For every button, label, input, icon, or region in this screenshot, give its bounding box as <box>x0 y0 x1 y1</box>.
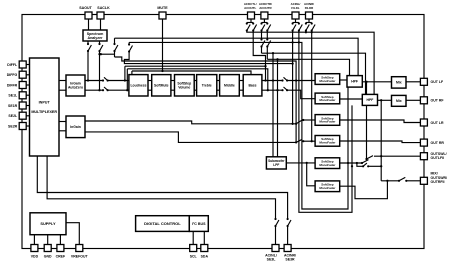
wire front L to MonoFader1 <box>287 80 315 82</box>
wire MUTE drop <box>162 19 164 71</box>
junction on net NB <box>291 41 293 43</box>
block SoftStep MonoFader 2 <box>315 93 340 104</box>
wire net V129 upper <box>128 42 130 44</box>
pin OUTSWL/OUTLFII <box>420 153 427 160</box>
svg-text:FILDL: FILDL <box>291 6 299 10</box>
switch net V114 <box>113 43 118 52</box>
junction HPF1 tap <box>365 81 367 83</box>
svg-text:OUT LF: OUT LF <box>431 80 444 84</box>
svg-text:SAOUT: SAOUT <box>79 6 92 10</box>
pin SACLK <box>97 12 104 19</box>
wire SAOUT to spectrum analyzer <box>88 19 90 30</box>
junction on MonoFader4 line <box>311 140 313 142</box>
wire to MIX OUTSWR pin <box>406 180 420 182</box>
wire stub DIFFR to input multiplexer <box>26 84 29 86</box>
wire MonoFader6 out loop <box>340 181 388 199</box>
svg-text:SE3L: SE3L <box>267 258 277 262</box>
wire stub DIFFL to input multiplexer <box>26 64 29 66</box>
wire net NB rail to HPF1 bottom <box>129 42 348 209</box>
switch AutoZero R <box>102 87 109 91</box>
svg-text:OUT RR: OUT RR <box>431 141 445 145</box>
wire Loudness-SoftMute R <box>148 89 152 91</box>
block input multiplexer <box>30 58 60 156</box>
switch net V129 <box>128 43 133 52</box>
switch MonoFader3 input <box>296 119 304 124</box>
pin ACINL/SE3L <box>272 245 279 252</box>
svg-text:OUT RF: OUT RF <box>431 99 445 103</box>
wire ACINL stem <box>295 19 297 23</box>
svg-text:SE1R: SE1R <box>8 104 18 108</box>
junction on InGain L line <box>291 123 293 125</box>
pin ACINR/FILDR <box>306 12 313 19</box>
pin VREFOUT <box>76 245 83 252</box>
svg-text:Mix: Mix <box>396 99 402 103</box>
switch ACDCTR right <box>266 22 271 31</box>
wire ACDCTL left upper <box>246 23 248 24</box>
junction spectrum tap R <box>98 89 100 91</box>
block SoftStep MonoFader 5 <box>315 158 340 169</box>
junction net H54 <box>98 53 100 55</box>
wire front R to MonoFader2 <box>287 90 315 99</box>
svg-text:DIFFL: DIFFL <box>7 63 18 67</box>
junction MonoFader6 loop on OUTSWR line <box>386 180 388 182</box>
junction MonoFader6 branch <box>306 162 308 164</box>
svg-text:SCL: SCL <box>190 255 198 259</box>
wire InGain out 2 <box>85 132 296 143</box>
junction on front L <box>264 79 266 81</box>
wire ACINL right upper <box>298 23 300 24</box>
pin MIX/OUTSWR/OUTRFII <box>420 177 427 184</box>
wire net H54 <box>101 53 115 55</box>
switch ACINR right <box>311 22 316 31</box>
switch spectrum tap R <box>98 43 103 52</box>
switch MonoFader5 out <box>361 160 369 164</box>
switch ACINR left <box>305 22 310 31</box>
switch spectrum tap L <box>87 43 92 52</box>
wire ACINR split <box>306 22 312 24</box>
svg-text:SE2R: SE2R <box>8 124 18 128</box>
svg-text:SE2L: SE2L <box>8 114 18 118</box>
pin OUT RF <box>420 97 427 104</box>
switch ACDCTL left <box>246 22 251 31</box>
block Loudness <box>129 75 148 96</box>
wire ACINR stem <box>308 19 310 23</box>
svg-text:OUTRFII: OUTRFII <box>431 180 445 184</box>
junction L4 on signal R <box>126 89 128 91</box>
wire bus L4 <box>127 69 267 90</box>
junction L4 on rear R <box>267 89 269 91</box>
svg-text:AutoZero: AutoZero <box>68 86 83 90</box>
wire stub SE2L to input multiplexer <box>26 115 29 117</box>
wire ACDCTR right to net ND <box>266 47 268 60</box>
block Bass <box>243 75 262 96</box>
wire Middle-Bass R <box>239 89 243 91</box>
junction L3 end <box>264 65 266 67</box>
junction MonoFader4 switch <box>295 141 297 143</box>
svg-text:INPUT: INPUT <box>39 101 51 105</box>
switch subwoofer L source <box>367 156 374 159</box>
switch OUTSWR <box>398 177 408 182</box>
wire mux to ACINR-SE3R net <box>37 156 287 219</box>
wire AutoZero out L <box>85 80 103 82</box>
junction on front L sub tap <box>272 79 274 81</box>
wire I2C to SCL <box>192 231 194 244</box>
wire mux to InGain in2 <box>59 130 66 132</box>
wire bus L5 left drop to Loudness <box>131 71 133 75</box>
wire bus L2 <box>124 52 292 64</box>
wire net NE to HPF1 top <box>115 38 359 75</box>
junction sub tap L on NC <box>272 52 274 54</box>
svg-text:SE3R: SE3R <box>285 258 295 262</box>
wire SE3L pin riser <box>275 226 277 245</box>
svg-text:Volume: Volume <box>178 86 190 90</box>
junction MonoFader3 switch <box>295 123 297 125</box>
pin SCL <box>190 245 197 252</box>
pin OUT LF <box>420 78 427 85</box>
block Treble <box>197 75 217 96</box>
wire ACDCTL right drop via H55 <box>253 31 265 81</box>
wire Volume-Treble R <box>194 89 196 91</box>
wire net V114 upper <box>114 38 116 44</box>
pin DIFFR <box>19 82 26 89</box>
junction rail on cluster link <box>351 165 353 167</box>
wire spectrum tap R upper <box>99 41 101 44</box>
wire to OUTSWR switch <box>381 180 399 182</box>
wire bus L4 left drop <box>126 69 128 90</box>
wire I2C to SDA <box>203 231 205 244</box>
switch MonoFader4 input <box>296 139 304 142</box>
wire Subwoofer LPF to MonoFader5 <box>286 162 315 164</box>
wire AutoZero R to Loudness <box>108 89 129 91</box>
wire MonoFader2 to HPF2 <box>340 98 363 100</box>
wire mux to InGain in1 <box>59 121 66 123</box>
pin DIFFL <box>19 61 26 68</box>
wire ACINR left drop <box>305 31 307 33</box>
svg-text:MonoFader: MonoFader <box>319 79 336 83</box>
wire AutoZero L to Loudness <box>108 80 129 82</box>
wire net NA to HPF2 top <box>247 31 374 95</box>
label ACINL/SE3L <box>265 254 277 262</box>
wire ACDCTL right upper <box>252 23 254 24</box>
wire spectrum tap L lower <box>87 51 89 81</box>
wire HPF2 to Mix2 <box>378 99 392 101</box>
wire ACDCTR left upper <box>261 23 263 24</box>
wire supply to VDD <box>33 235 35 245</box>
junction L1 on front L <box>295 79 297 81</box>
switch ACINL right <box>298 22 303 31</box>
wire HPF2 tap drop <box>380 100 382 181</box>
svg-text:OUT LR: OUT LR <box>431 121 444 125</box>
wire bus L5 mute net <box>132 71 251 75</box>
wire ACINL left long drop <box>292 31 294 124</box>
switch ACDCTR right second <box>266 38 271 47</box>
block supply <box>30 213 66 235</box>
wire Treble-Middle L <box>217 80 220 82</box>
wire AutoZero out R <box>85 89 103 91</box>
block SoftMute <box>152 75 171 96</box>
pin ACINL/FILDL <box>292 12 299 19</box>
switch front L <box>281 77 288 81</box>
wire MonoFader5 out <box>340 162 362 164</box>
wire InGain out 1 <box>85 121 296 124</box>
svg-text:ACOUTR: ACOUTR <box>259 6 272 10</box>
wire ACDCTR right upper <box>266 23 268 24</box>
block SoftStep MonoFader 1 <box>315 74 340 85</box>
label ACINR/FILDR <box>304 2 314 10</box>
junction spectrum tap L <box>87 79 89 81</box>
wire MonoFader1 to HPF1 <box>340 79 347 81</box>
block subwoofer LPF <box>266 157 286 169</box>
wire sub tap L drop to LPF <box>272 53 274 157</box>
svg-text:MonoFader: MonoFader <box>319 186 336 190</box>
switch ACDCTR left <box>260 22 265 31</box>
wire to MonoFader6 <box>307 163 315 186</box>
junction NB on ACINL right <box>298 41 300 43</box>
svg-text:Loudness: Loudness <box>130 84 146 88</box>
wire ACINR right upper <box>311 23 313 24</box>
block HPF2 <box>362 94 377 105</box>
wire to OUTSWL pin <box>374 155 420 157</box>
wire MonoFader4 to OUTRR <box>340 141 421 143</box>
svg-text:MUTE: MUTE <box>157 6 168 10</box>
pin VDD <box>31 245 38 252</box>
switch ACINL left <box>292 22 297 31</box>
wire ACINL right long drop to HPF2 bottom rail <box>299 31 352 213</box>
pin SAOUT <box>85 12 92 19</box>
wire Bass out L <box>262 80 283 82</box>
block HPF1 <box>347 76 362 88</box>
block SoftStep MonoFader 4 <box>315 136 340 147</box>
svg-text:ACOUTL: ACOUTL <box>244 6 256 10</box>
svg-text:Bass: Bass <box>248 84 256 88</box>
junction L3 on signal L <box>124 79 126 81</box>
wire ACDCTR stem <box>263 19 265 23</box>
svg-text:OUTLFII: OUTLFII <box>431 156 445 160</box>
block InGain <box>66 116 85 138</box>
pin ACDCTL/ACOUTL <box>248 12 255 19</box>
svg-text:SDA: SDA <box>201 255 209 259</box>
svg-text:Treble: Treble <box>202 84 212 88</box>
wire ACDCTL stem <box>250 19 252 23</box>
pin MUTE <box>159 12 166 19</box>
wire spectrum tap R lower <box>99 51 101 90</box>
wire mux to InGain-AutoZero L <box>59 80 66 82</box>
wire net ND to HPF1 top <box>267 59 349 75</box>
wire SE3R pin riser <box>287 226 289 245</box>
svg-text:Mix: Mix <box>396 81 402 85</box>
svg-text:HPF: HPF <box>367 98 374 102</box>
switch AutoZero L <box>102 77 109 81</box>
junction cluster C <box>365 158 367 160</box>
junction NA on ACINR right <box>311 31 313 33</box>
pin DIFFG <box>19 71 26 78</box>
junction on rear R sub tap <box>276 89 278 91</box>
wire mux to ACINL-SE3L net <box>47 156 275 219</box>
wire Bass out R <box>262 89 283 91</box>
wire stub SE1L to input multiplexer <box>26 94 29 96</box>
svg-text:VREFOUT: VREFOUT <box>71 255 89 259</box>
switch ACDCTR left second <box>260 38 265 47</box>
wire net NC to HPF2 top <box>262 53 366 94</box>
wire mux to InGain-AutoZero R <box>59 89 66 91</box>
block digital control <box>136 216 190 232</box>
pin SE2L <box>19 112 26 119</box>
wire ACINR right drop <box>311 31 313 142</box>
wire stub SE2R to input multiplexer <box>26 125 29 127</box>
pin OUT RR <box>420 139 427 146</box>
chip boundary <box>22 15 424 249</box>
wire ACDCTR left to net NC <box>261 47 263 54</box>
wire ACDCTR split <box>262 22 268 24</box>
label ACDCTL/ACOUTL <box>244 2 257 10</box>
svg-text:MonoFader: MonoFader <box>319 163 336 167</box>
junction sub select <box>356 162 358 164</box>
wire to MonoFader4 <box>303 140 315 142</box>
svg-text:MonoFader: MonoFader <box>319 141 336 145</box>
svg-text:Analyzer: Analyzer <box>88 36 104 40</box>
svg-text:FILDR: FILDR <box>305 6 314 10</box>
switch SE3L <box>274 218 279 227</box>
svg-text:HPF: HPF <box>351 80 358 84</box>
wire bus L1 drop to fader switches <box>115 57 297 142</box>
wire bus L3 <box>125 65 266 67</box>
junction sub tap R on ND <box>276 58 278 60</box>
switch ACDCTL right <box>252 22 257 31</box>
svg-text:SACLK: SACLK <box>97 6 110 10</box>
wire ACINR left upper <box>305 23 307 24</box>
wire ACINL left upper <box>292 23 294 24</box>
switch cluster lower <box>362 163 369 167</box>
junction on net NA <box>305 31 307 33</box>
block I2C bus <box>189 216 208 232</box>
block Mix1 <box>392 77 407 88</box>
wire Volume-Treble L <box>194 80 196 82</box>
wire to MonoFader3 <box>303 119 315 121</box>
svg-text:I²C BUS: I²C BUS <box>192 222 206 226</box>
label ACDCTR/ACOUTR <box>259 2 273 10</box>
block InGain AutoZero <box>66 75 85 96</box>
svg-text:GND: GND <box>44 255 52 259</box>
wire MonoFader3 to OUTLR <box>340 120 421 123</box>
wire Loudness-SoftMute L <box>148 80 152 82</box>
junction lower link on tap <box>380 165 382 167</box>
junction L2 end <box>291 62 293 64</box>
wire Treble-Middle R <box>217 89 220 91</box>
label MIX/OUTSWR/OUTRFII <box>431 172 448 184</box>
svg-text:SUPPLY: SUPPLY <box>40 221 56 226</box>
wire supply to GND <box>47 235 49 245</box>
svg-text:VDD: VDD <box>31 255 39 259</box>
wire Mix2 to OUTRF <box>406 99 420 101</box>
pin SE2R <box>19 123 26 130</box>
block SoftStep Volume <box>175 75 195 96</box>
pin GND <box>44 245 51 252</box>
wire HPF1 to Mix1 <box>362 81 391 83</box>
junction on OUTSWL line <box>380 155 382 157</box>
junction H54 on SACLK tap <box>100 53 102 55</box>
switch SE3R <box>287 218 292 227</box>
block SoftStep MonoFader 3 <box>315 115 340 126</box>
svg-text:CREF: CREF <box>56 255 66 259</box>
wire ACDCTL split <box>247 22 253 24</box>
svg-text:MULTIPLEXER: MULTIPLEXER <box>31 110 57 114</box>
svg-text:DIGITAL CONTROL: DIGITAL CONTROL <box>144 221 181 226</box>
svg-text:LPF: LPF <box>273 163 279 167</box>
pin SE1L <box>19 92 26 99</box>
label ACINR/SE3R <box>284 254 296 262</box>
wire ACDCTR left mid <box>261 31 263 40</box>
wire stub DIFFG to input multiplexer <box>26 74 29 76</box>
svg-text:SE1L: SE1L <box>8 94 18 98</box>
block Middle <box>220 75 240 96</box>
wire bus L3 left drop <box>124 66 126 80</box>
pin SDA <box>201 245 208 252</box>
wire ACDCTR right mid <box>266 31 268 40</box>
svg-text:Middle: Middle <box>224 84 235 88</box>
wire ACINL split <box>293 22 299 24</box>
pin CREF <box>57 245 64 252</box>
junction rail on MonoFader5 out <box>347 162 349 164</box>
wire supply to VREFOUT <box>66 223 79 245</box>
wire stub SE1R to input multiplexer <box>26 105 29 107</box>
svg-text:DIFFG: DIFFG <box>7 73 18 77</box>
switch front R <box>281 87 288 91</box>
wire supply to CREF <box>59 235 61 245</box>
wire Middle-Bass L <box>239 80 243 82</box>
wire SoftMute-Volume R <box>171 89 175 91</box>
block SoftStep MonoFader 6 <box>315 181 340 192</box>
svg-text:InGain: InGain <box>70 125 81 129</box>
pin OUT LR <box>420 119 427 126</box>
svg-text:MonoFader: MonoFader <box>319 120 336 124</box>
wire Mix1 to OUTLF <box>406 81 420 83</box>
svg-text:SoftMute: SoftMute <box>154 84 169 88</box>
wire SACLK to spectrum analyzer <box>100 19 102 30</box>
block Mix2 <box>392 95 407 106</box>
wire net V114 lower <box>114 51 116 57</box>
pin SE1R <box>19 102 26 109</box>
label OUTSWL/OUTLFII <box>431 152 447 160</box>
wire sub tap R drop to LPF <box>277 59 279 157</box>
pin ACINR/SE3R <box>284 245 291 252</box>
label ACINL/FILDL <box>291 2 301 10</box>
svg-text:DIFFR: DIFFR <box>7 83 18 87</box>
wire cluster lower link <box>368 165 381 167</box>
block spectrum analyzer <box>83 30 107 41</box>
wire SoftMute-Volume L <box>171 80 175 82</box>
junction HPF2 tap <box>380 99 382 101</box>
wire spectrum tap L upper <box>87 41 89 44</box>
wire sub select link <box>357 163 363 166</box>
pin ACDCTR/ACOUTR <box>261 12 268 19</box>
svg-text:MonoFader: MonoFader <box>319 98 336 102</box>
wire HPF1 tap drop <box>366 82 368 159</box>
junction MUTE on L5 <box>161 70 163 72</box>
